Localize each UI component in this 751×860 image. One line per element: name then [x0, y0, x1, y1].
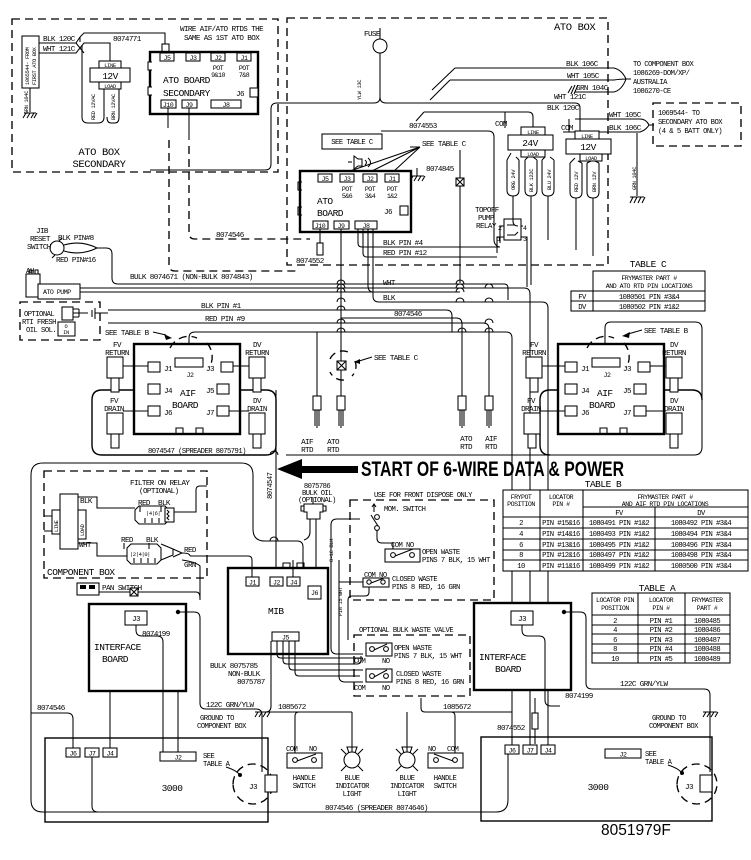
connector J3 (secondary) [186, 53, 200, 62]
svg-text:DV: DV [578, 304, 587, 312]
svg-text:FV: FV [527, 398, 536, 406]
svg-text:8074845: 8074845 [426, 166, 455, 174]
connector J6 (left AIF) [148, 406, 173, 418]
svg-text:1065544- FROM: 1065544- FROM [25, 47, 31, 85]
transformer (component box) [44, 494, 135, 556]
svg-text:PIN #3: PIN #3 [650, 637, 673, 645]
connector J4 (left AIF) [148, 384, 173, 396]
svg-text:ATO: ATO [327, 439, 340, 447]
svg-text:COM: COM [354, 685, 366, 693]
svg-text:1069544- TO: 1069544- TO [658, 110, 700, 118]
svg-text:LIGHT: LIGHT [398, 791, 418, 799]
svg-text:J2: J2 [620, 752, 627, 759]
wire (clamp vertical) [459, 150, 461, 283]
connector AIF RTD (right pair) [485, 396, 498, 452]
svg-text:DV: DV [697, 510, 706, 518]
svg-text:COMPONENT BOX: COMPONENT BOX [47, 567, 115, 578]
svg-text:SAME AS 1ST ATO BOX: SAME AS 1ST ATO BOX [184, 35, 260, 43]
svg-text:SEE TABLE C: SEE TABLE C [331, 139, 374, 147]
transformer 12V (secondary) [82, 45, 130, 123]
wire (data riser to MIB) [275, 390, 277, 577]
wire GRN 104C (shield) [568, 85, 614, 94]
cable brace to component box [614, 68, 631, 92]
svg-text:BRN 12VAC: BRN 12VAC [111, 94, 117, 120]
svg-text:1080487: 1080487 [694, 637, 721, 645]
svg-text:PIN #5: PIN #5 [650, 656, 673, 664]
svg-text:J1: J1 [164, 366, 173, 374]
svg-text:ATO: ATO [317, 196, 333, 207]
svg-text:TABLE B: TABLE B [585, 479, 622, 490]
svg-text:BOARD: BOARD [172, 400, 199, 411]
svg-text:6: 6 [519, 542, 523, 550]
svg-text:RTI FRESH: RTI FRESH [22, 319, 56, 327]
svg-text:8074546 (SPREADER 8074646): 8074546 (SPREADER 8074646) [325, 805, 428, 813]
svg-text:YLW 13C: YLW 13C [357, 80, 363, 100]
svg-text:ATO BOX: ATO BOX [78, 147, 120, 159]
svg-text:J6: J6 [70, 751, 77, 758]
svg-text:ATO PUMP: ATO PUMP [43, 289, 71, 296]
svg-text:ATO: ATO [460, 436, 473, 444]
svg-text:J5: J5 [206, 388, 215, 396]
svg-text:START OF 6-WIRE DATA & POWER: START OF 6-WIRE DATA & POWER [361, 458, 624, 481]
svg-text:1080496 PIN #3&4: 1080496 PIN #3&4 [671, 542, 731, 550]
svg-text:BRN 12V: BRN 12V [592, 171, 598, 192]
ground (ATO box) [630, 197, 645, 203]
connector ATO RTD (left pair) [327, 396, 345, 455]
svg-text:J7: J7 [623, 410, 631, 418]
svg-text:1080499 PIN #1&2: 1080499 PIN #1&2 [589, 563, 649, 571]
svg-text:COMPONENT BOX: COMPONENT BOX [197, 723, 247, 731]
shield ground 8074845 [410, 166, 455, 181]
svg-text:FV: FV [530, 342, 539, 350]
svg-text:PINS 7 BLK, 15 WHT: PINS 7 BLK, 15 WHT [422, 557, 491, 565]
svg-text:LOCATOR: LOCATOR [649, 597, 674, 604]
svg-text:WHT: WHT [383, 280, 396, 288]
svg-text:1086270-CE: 1086270-CE [633, 88, 671, 96]
svg-text:1080489: 1080489 [694, 656, 721, 664]
svg-text:LOAD: LOAD [104, 84, 116, 90]
svg-text:1080485: 1080485 [694, 618, 721, 626]
solenoid DV RETURN (right) [650, 342, 686, 392]
connector J3 (right AIF) [623, 362, 650, 374]
svg-text:J5: J5 [282, 635, 289, 642]
svg-text:FRYPOT: FRYPOT [511, 494, 532, 501]
wire WHT [383, 280, 530, 745]
svg-text:2: 2 [519, 520, 523, 528]
connector J2 (MIB) [270, 577, 283, 587]
svg-text:PINS 7 BLK, 15 WHT: PINS 7 BLK, 15 WHT [394, 653, 463, 661]
svg-text:POT: POT [342, 186, 353, 193]
svg-text:INTERFACE: INTERFACE [94, 642, 142, 653]
svg-text:MIB: MIB [268, 606, 284, 617]
svg-text:9&10: 9&10 [211, 72, 225, 79]
svg-text:2: 2 [613, 618, 617, 626]
svg-text:J3: J3 [206, 366, 215, 374]
wire 1085672 (right bus) [407, 698, 512, 753]
connector J5 (MIB) [272, 632, 299, 642]
svg-text:J7: J7 [89, 751, 96, 758]
connector J5 (primary) [318, 174, 332, 183]
wire GRN 104C to ground [24, 88, 30, 114]
svg-text:AIF: AIF [301, 439, 314, 447]
box 3000 (left) [45, 738, 268, 822]
svg-text:J7: J7 [206, 410, 214, 418]
svg-text:AND ATO RTD PIN LOCATIONS: AND ATO RTD PIN LOCATIONS [606, 283, 693, 290]
label 8074547 spreader (left) [148, 448, 246, 456]
svg-text:J3: J3 [518, 616, 527, 624]
label cable BLK (vertical) [329, 519, 363, 654]
svg-text:SEE TABLE C: SEE TABLE C [374, 355, 419, 363]
svg-text:TABLE A: TABLE A [203, 761, 231, 769]
connector J3 (left 3000, dashed circle) [233, 764, 277, 804]
wire 8074546 (6-wire data) [341, 311, 462, 396]
svg-text:LOCATOR: LOCATOR [549, 494, 574, 501]
connector J1 (left AIF) [148, 362, 173, 374]
svg-text:TABLE A: TABLE A [645, 759, 673, 767]
svg-text:COMPONENT BOX: COMPONENT BOX [649, 723, 699, 731]
board INTERFACE BOARD (left) [89, 604, 186, 691]
svg-text:FV: FV [110, 398, 119, 406]
svg-text:J6: J6 [581, 410, 590, 418]
svg-text:FIRST ATO BOX: FIRST ATO BOX [32, 46, 38, 85]
svg-text:3&4: 3&4 [365, 193, 376, 200]
note 1069544 to secondary ATO box (dashed) [653, 103, 741, 146]
connector J5 (secondary) [160, 53, 174, 62]
solenoid FV DRAIN (right) [521, 398, 565, 448]
svg-text:RESET: RESET [30, 236, 51, 244]
svg-text:BOARD: BOARD [317, 208, 344, 219]
connector J3 (right 3000, dashed circle) [677, 764, 717, 804]
connector J6 (right AIF) [565, 406, 590, 418]
wire 122C GRN/YLW (right) [566, 612, 710, 772]
svg-text:J5: J5 [623, 388, 632, 396]
svg-text:BLK 120C: BLK 120C [547, 105, 580, 113]
svg-text:TO COMPONENT BOX: TO COMPONENT BOX [633, 61, 694, 69]
svg-text:SECONDARY ATO BOX: SECONDARY ATO BOX [658, 119, 723, 127]
svg-text:8074771: 8074771 [113, 36, 142, 44]
svg-text:J2: J2 [215, 55, 222, 62]
svg-text:1085672: 1085672 [278, 704, 307, 712]
connector J4 (left 3000) [103, 748, 117, 758]
connector (RTI sol) [62, 307, 108, 320]
wire RED PIN #9 [108, 316, 489, 400]
svg-text:J8: J8 [223, 102, 230, 109]
svg-text:1080493 PIN #1&2: 1080493 PIN #1&2 [589, 531, 649, 539]
label PIN 7 BLK (vertical) [323, 589, 329, 616]
svg-text:FV: FV [113, 342, 122, 350]
svg-text:1080500 PIN #3&4: 1080500 PIN #3&4 [671, 563, 731, 571]
svg-text:DV: DV [670, 398, 679, 406]
svg-text:COM: COM [495, 121, 508, 129]
svg-text:1086269-DOM/XP/: 1086269-DOM/XP/ [633, 70, 690, 78]
svg-text:FRYMASTER PART #: FRYMASTER PART # [621, 275, 677, 282]
svg-text:1&2: 1&2 [387, 193, 398, 200]
svg-text:SEE TABLE B: SEE TABLE B [644, 328, 689, 336]
solenoid FV RETURN (right) [522, 342, 565, 392]
wire data (left AIF J2 riser) [189, 332, 512, 745]
enclosure main cabinet (rounded) [31, 463, 508, 812]
box O/IN [58, 322, 75, 336]
svg-text:J9: J9 [186, 102, 193, 109]
switch HANDLE SWITCH (right) [428, 746, 463, 791]
connector J3 POT 5&6 [340, 174, 354, 200]
svg-text:J8: J8 [363, 223, 370, 230]
connector J5 (left AIF) [206, 384, 229, 396]
wire BULK 8074671 [118, 274, 508, 300]
svg-text:J3: J3 [685, 784, 694, 792]
svg-text:8074552: 8074552 [296, 258, 325, 266]
svg-text:SEE: SEE [203, 753, 215, 761]
svg-text:J4: J4 [290, 580, 297, 587]
svg-text:INDICATOR: INDICATOR [335, 783, 370, 791]
wire 8074546 (left feed) [31, 705, 73, 748]
svg-text:J4: J4 [545, 748, 552, 755]
box SEE TABLE C [322, 134, 382, 149]
svg-text:SEE TABLE C: SEE TABLE C [422, 141, 467, 149]
svg-text:J1: J1 [249, 580, 256, 587]
svg-text:NO: NO [382, 658, 390, 666]
label SEE TABLE A (right) [645, 751, 684, 775]
connector J6 (secondary) [236, 88, 258, 99]
connector J3 (left interface) [125, 611, 147, 625]
solenoid FV RETURN (left) [105, 342, 148, 392]
svg-text:OPTIONAL BULK WASTE VALVE: OPTIONAL BULK WASTE VALVE [359, 627, 453, 635]
wire RED PIN #12 [363, 229, 497, 258]
connector J8 (primary) [355, 221, 377, 230]
wire pump pair [80, 288, 524, 292]
wire 8074199 (right) [522, 625, 594, 706]
wire BLK 120C [39, 36, 84, 53]
wire data (right AIF J2 riser) [286, 322, 702, 455]
svg-text:POSITION: POSITION [507, 501, 535, 508]
wire WHT 105C (to secondary) [575, 112, 649, 125]
ground (below 1065544) [23, 113, 37, 118]
svg-text:J2: J2 [273, 580, 280, 587]
switch CLOSED WASTE (bulk valve) [354, 669, 464, 693]
connector ATO RTD (right pair) [458, 396, 473, 452]
enclosure left frypot (rounded) [92, 390, 276, 455]
svg-text:J1: J1 [241, 55, 248, 62]
svg-text:J6: J6 [311, 590, 318, 597]
connector J7 (right AIF) [623, 406, 646, 418]
svg-text:BULK 8074671 (NON-BULK 8074843: BULK 8074671 (NON-BULK 8074843) [130, 274, 253, 282]
svg-text:1080502 PIN #1&2: 1080502 PIN #1&2 [619, 304, 679, 312]
connector J1 (right AIF) [565, 362, 590, 374]
svg-text:J2: J2 [175, 755, 182, 762]
svg-text:8074199: 8074199 [142, 631, 171, 639]
label SEE TABLE C with pointers [347, 141, 467, 172]
solenoid DV RETURN (left) [233, 342, 269, 392]
svg-text:RED 12VAC: RED 12VAC [91, 94, 97, 120]
relay 2 (filter) [121, 537, 200, 600]
svg-text:BLK 122C: BLK 122C [529, 169, 535, 192]
svg-text:8: 8 [519, 552, 523, 560]
wires MIB J5 to valves [266, 641, 363, 712]
relay FILTER ON RELAY (OPTIONAL) [130, 480, 207, 524]
svg-text:122C GRN/YLW: 122C GRN/YLW [620, 681, 669, 689]
ground to component box (right) [649, 712, 718, 731]
wire BLK PIN #4 [358, 229, 500, 248]
svg-text:J1: J1 [389, 176, 396, 183]
wire WHT 105C [430, 73, 614, 100]
ground to component box (left) [197, 712, 270, 731]
svg-text:(4 & 5 BATT ONLY): (4 & 5 BATT ONLY) [658, 128, 722, 136]
svg-text:BLUE: BLUE [399, 775, 414, 783]
svg-text:MOM. SWITCH: MOM. SWITCH [384, 506, 426, 514]
switch OPEN WASTE (front dispose) [385, 542, 491, 565]
svg-text:JIB: JIB [36, 228, 49, 236]
wires left 3000 internals [92, 691, 178, 812]
pump ATO PUMP [38, 284, 80, 299]
svg-text:PIN #15&16: PIN #15&16 [542, 520, 580, 528]
svg-text:NO: NO [382, 685, 390, 693]
svg-text:BLK: BLK [158, 500, 171, 508]
svg-text:8074547 (SPREADER 8075791): 8074547 (SPREADER 8075791) [148, 448, 246, 456]
svg-text:BOARD: BOARD [495, 664, 522, 675]
svg-text:1080486: 1080486 [694, 627, 721, 635]
enclosure ATO BOX SECONDARY (dashed) [12, 19, 278, 172]
svg-text:J4: J4 [581, 388, 590, 396]
svg-text:10: 10 [611, 656, 619, 664]
svg-text:FRYMASTER PART #: FRYMASTER PART # [637, 494, 693, 501]
svg-text:BOARD: BOARD [589, 400, 616, 411]
wire BLK PIN#8 [58, 235, 95, 243]
svg-text:SEE TABLE B: SEE TABLE B [105, 330, 150, 338]
svg-text:SWITCH: SWITCH [434, 783, 457, 791]
arrow START OF 6-WIRE DATA & POWER [277, 458, 624, 481]
svg-text:AIF: AIF [180, 388, 196, 399]
svg-text:INTERFACE: INTERFACE [479, 652, 527, 663]
svg-text:HANDLE: HANDLE [434, 775, 457, 783]
connector J2 (left 3000) [160, 752, 196, 762]
svg-text:J10: J10 [315, 223, 326, 230]
svg-text:10: 10 [517, 563, 525, 571]
svg-text:OPTIONAL: OPTIONAL [24, 311, 54, 319]
wire RED PIN#16 [56, 257, 97, 265]
connector J1 POT 1&2 [385, 174, 399, 200]
svg-text:BLK PIN#8: BLK PIN#8 [58, 235, 95, 243]
connector AIF RTD (left pair) [301, 396, 321, 455]
svg-text:3000: 3000 [162, 783, 184, 794]
connector J8 (secondary) [211, 100, 241, 109]
connector 8075786 BULK OIL (OPTIONAL) [298, 483, 336, 568]
board AIF BOARD (left) [134, 344, 240, 434]
svg-text:PIN #: PIN # [652, 605, 670, 612]
connector J6 (MIB) [308, 586, 321, 599]
svg-text:4: 4 [519, 531, 523, 539]
wire BLK 106C [432, 61, 614, 90]
wire BLK 120C (to 24V line) [416, 105, 580, 127]
svg-text:1080498 PIN #3&4: 1080498 PIN #3&4 [671, 552, 731, 560]
svg-text:LIGHT: LIGHT [343, 791, 363, 799]
wire 8074553 [381, 123, 499, 247]
svg-text:HANDLE: HANDLE [293, 775, 316, 783]
svg-text:8: 8 [613, 646, 617, 654]
svg-text:1080491 PIN #1&2: 1080491 PIN #1&2 [589, 520, 649, 528]
wire BLK [373, 229, 548, 745]
svg-text:FUSE: FUSE [364, 31, 381, 39]
svg-text:LOAD: LOAD [80, 524, 86, 536]
svg-text:BLK: BLK [80, 498, 93, 506]
connector J5 (right AIF) [623, 384, 646, 396]
svg-text:GROUND TO: GROUND TO [652, 715, 686, 723]
svg-text:1080495 PIN #1&2: 1080495 PIN #1&2 [589, 542, 649, 550]
svg-text:OIL SOL.: OIL SOL. [26, 327, 56, 335]
junction dot (left interface) [176, 610, 180, 614]
connector J7 (right 3000) [523, 745, 537, 755]
connector J6 (right 3000) [505, 745, 519, 755]
switch HANDLE SWITCH (left) [286, 746, 322, 791]
enclosure OPTIONAL BULK WASTE VALVE (dashed) [354, 627, 470, 696]
svg-text:OPEN WASTE: OPEN WASTE [394, 645, 432, 653]
svg-text:ORG 24V: ORG 24V [511, 169, 517, 190]
connector J4 (right AIF) [565, 384, 590, 396]
wire J10 stub [167, 108, 169, 128]
svg-text:RTD: RTD [485, 444, 498, 452]
wire J9 stub [188, 108, 190, 140]
svg-text:DV: DV [670, 342, 679, 350]
solenoid DV DRAIN (right) [646, 398, 684, 448]
svg-text:8074552: 8074552 [497, 725, 526, 733]
wire 8074771 to J5 [76, 33, 169, 56]
switch JIB RESET SWITCH [27, 228, 64, 258]
svg-text:AND AIF RTD PIN LOCATIONS: AND AIF RTD PIN LOCATIONS [622, 501, 709, 508]
label SEE TABLE A (left) [203, 753, 242, 777]
switch OPEN WASTE (bulk valve) [354, 643, 463, 666]
svg-text:1085672: 1085672 [443, 704, 472, 712]
svg-text:RTD: RTD [460, 444, 473, 452]
svg-text:LOCATOR PIN: LOCATOR PIN [596, 597, 635, 604]
svg-text:POT: POT [387, 186, 398, 193]
wire WHT 121C (to 12V line) [386, 94, 587, 131]
svg-text:4: 4 [613, 627, 617, 635]
svg-text:PIN #: PIN # [552, 501, 570, 508]
connector J4 (right 3000) [541, 745, 555, 755]
svg-text:PIN #12&16: PIN #12&16 [542, 552, 580, 560]
clamp + SEE TABLE C (mid) [330, 351, 419, 380]
svg-text:COM: COM [561, 125, 574, 133]
jug AH [26, 268, 40, 297]
svg-text:PUMP: PUMP [478, 215, 495, 223]
svg-text:PIN #1: PIN #1 [650, 618, 673, 626]
svg-text:TABLE A: TABLE A [639, 583, 676, 594]
svg-text:PIN #4: PIN #4 [650, 646, 673, 654]
svg-text:RTD: RTD [327, 447, 340, 455]
svg-text:J3: J3 [132, 616, 141, 624]
connector J6 (primary) [384, 206, 408, 217]
svg-text:DV: DV [253, 342, 262, 350]
connector J3 (right interface) [511, 611, 533, 625]
svg-text:OPEN WASTE: OPEN WASTE [422, 549, 460, 557]
wire J8 legs [368, 229, 372, 292]
svg-text:CLOSED WASTE: CLOSED WASTE [392, 576, 437, 584]
svg-text:POT: POT [239, 65, 250, 72]
svg-text:SECONDARY: SECONDARY [72, 159, 126, 171]
connector J9 (primary) [334, 221, 349, 230]
hop marks [270, 280, 493, 541]
svg-text:8075787: 8075787 [237, 679, 265, 687]
switch CLOSED WASTE (front dispose) [339, 572, 460, 640]
connector 8074552 stub [296, 229, 325, 266]
svg-text:1080501 PIN #3&4: 1080501 PIN #3&4 [619, 294, 679, 302]
svg-text:SWITCH: SWITCH [27, 244, 51, 252]
svg-text:FILTER ON RELAY: FILTER ON RELAY [130, 480, 190, 488]
svg-text:AUSTRALIA: AUSTRALIA [633, 79, 668, 87]
lamp BLUE INDICATOR LIGHT (right) [390, 747, 425, 799]
svg-text:6: 6 [613, 637, 617, 645]
connector J10 (secondary) [161, 100, 176, 109]
svg-text:TABLE C: TABLE C [630, 259, 667, 270]
